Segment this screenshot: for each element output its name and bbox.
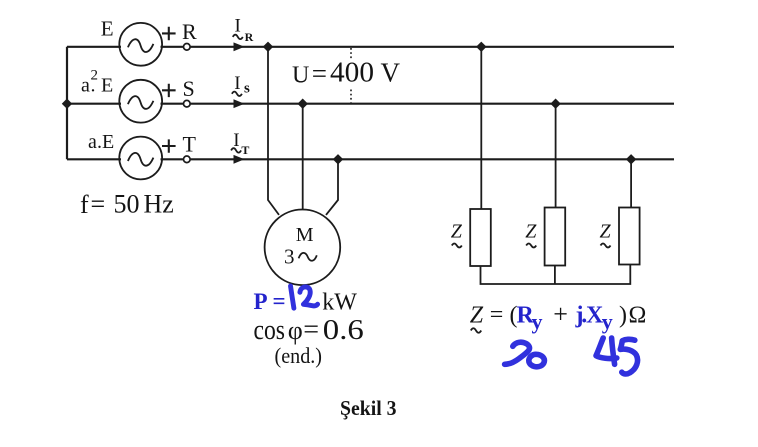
svg-text:Z: Z: [451, 221, 463, 243]
svg-text:φ: φ: [288, 316, 303, 345]
svg-text:cos: cos: [254, 315, 286, 346]
svg-text:2: 2: [91, 68, 99, 84]
svg-text:3: 3: [284, 245, 295, 269]
svg-text:(end.): (end.): [275, 343, 323, 368]
svg-text:E: E: [102, 131, 114, 153]
svg-text:y: y: [532, 309, 543, 334]
svg-text:f: f: [80, 190, 89, 219]
svg-text:S: S: [183, 76, 195, 101]
svg-text:y: y: [602, 309, 613, 334]
svg-text:a: a: [88, 131, 97, 153]
svg-text:): ): [619, 303, 627, 329]
svg-text:Z: Z: [600, 221, 612, 243]
svg-text:400: 400: [330, 56, 374, 88]
svg-text:I: I: [234, 73, 240, 94]
svg-text:Şekil 3: Şekil 3: [340, 396, 397, 420]
svg-text:s: s: [244, 81, 250, 97]
svg-text:I: I: [235, 16, 241, 37]
svg-text:Hz: Hz: [144, 190, 174, 219]
svg-text:T: T: [241, 143, 249, 157]
svg-text:R: R: [182, 19, 197, 44]
svg-text:Z: Z: [470, 303, 484, 329]
svg-text:P: P: [254, 289, 268, 314]
svg-text:V: V: [381, 57, 401, 87]
svg-text:kW: kW: [322, 290, 357, 316]
svg-text:E: E: [101, 17, 114, 41]
svg-text:50: 50: [114, 190, 140, 219]
svg-text:a: a: [81, 75, 90, 97]
svg-text:0.6: 0.6: [323, 315, 364, 346]
svg-text:+: +: [553, 299, 568, 328]
svg-text:M: M: [296, 224, 314, 246]
svg-text:T: T: [183, 132, 197, 157]
svg-text:E: E: [101, 75, 113, 97]
svg-text:=: =: [490, 302, 504, 328]
svg-text:U: U: [292, 63, 309, 89]
svg-text:=: =: [312, 58, 327, 88]
svg-text:R: R: [245, 30, 254, 44]
svg-text:Z: Z: [525, 221, 537, 243]
svg-text:Ω: Ω: [629, 303, 647, 329]
svg-text:=: =: [273, 289, 286, 314]
svg-text:=: =: [91, 190, 106, 219]
svg-text:=: =: [303, 314, 319, 345]
